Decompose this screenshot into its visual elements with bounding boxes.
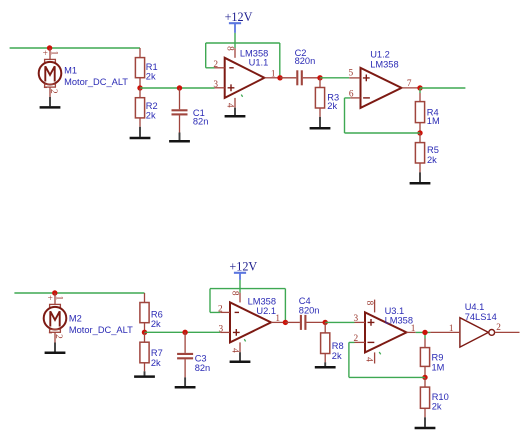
svg-text:R7: R7 (151, 348, 163, 358)
wire +12V drop bottom (239, 280, 241, 293)
svg-text:4: 4 (229, 348, 239, 353)
node M2 tap (52, 290, 57, 295)
svg-text:+12V: +12V (225, 10, 253, 24)
svg-text:4: 4 (363, 357, 373, 362)
op-amp U2.1 LM358 (218, 291, 285, 353)
svg-text:U1.1: U1.1 (249, 57, 269, 67)
svg-text:2k: 2k (432, 401, 442, 411)
svg-text:3: 3 (219, 324, 224, 334)
resistor R10 (420, 377, 448, 417)
node R9/R10 (422, 375, 427, 380)
resistor R4 (415, 93, 439, 133)
wire net IN1 top rail (10, 47, 140, 49)
svg-text:LM358: LM358 (385, 316, 413, 326)
resistor R1 (135, 48, 157, 88)
node R4/R5 (417, 130, 422, 135)
capacitor C2 (280, 48, 320, 85)
svg-text:R9: R9 (432, 353, 444, 363)
ground (45, 343, 66, 353)
svg-text:2k: 2k (327, 101, 337, 111)
svg-text:820n: 820n (295, 56, 316, 66)
wire feedback to pin2 (349, 342, 425, 377)
svg-text:2: 2 (48, 89, 58, 94)
resistor R9 (420, 339, 444, 378)
node divider 1 (137, 85, 142, 90)
ground (415, 417, 436, 428)
svg-text:1: 1 (271, 69, 276, 79)
resistor R7 (140, 332, 163, 371)
node U2.1 output (283, 320, 288, 325)
wire feedback rail U2.1 (210, 289, 285, 323)
ground (130, 127, 151, 138)
resistor R6 (140, 293, 163, 332)
resistor R8 (321, 322, 344, 362)
ground (410, 172, 431, 183)
capacitor C1 (172, 88, 209, 133)
svg-text:+: + (43, 49, 48, 59)
svg-text:7: 7 (407, 79, 412, 89)
node C2/R3 (317, 75, 322, 80)
svg-text:U4.1: U4.1 (465, 302, 485, 312)
node divider 2 (142, 330, 147, 335)
wire net IN2 bottom rail (14, 292, 144, 294)
svg-text:1: 1 (48, 51, 58, 56)
node U1.2 output (417, 85, 422, 90)
svg-text:2k: 2k (427, 155, 437, 165)
svg-text:82n: 82n (195, 363, 211, 373)
svg-text:+12V: +12V (229, 260, 257, 274)
node U3.1 output (422, 330, 427, 335)
motor M2 Motor_DC_ALT (44, 293, 133, 343)
resistor R2 (135, 88, 157, 127)
svg-text:+: + (48, 294, 53, 304)
node C3 tap (182, 330, 187, 335)
capacitor C4 (285, 296, 325, 330)
svg-text:82n: 82n (193, 117, 209, 127)
svg-text:R5: R5 (427, 145, 439, 155)
wire divider node to U2.1 pin3 (145, 331, 221, 333)
svg-text:Motor_DC_ALT: Motor_DC_ALT (64, 77, 128, 87)
wire output stub to R4 (419, 88, 421, 93)
node C4/R8 (323, 320, 328, 325)
svg-text:2: 2 (496, 323, 501, 333)
svg-text:LM358: LM358 (248, 296, 276, 306)
svg-text:8: 8 (229, 291, 239, 296)
wire C4 node to U3.1 pin3 (325, 321, 354, 323)
svg-text:M2: M2 (69, 314, 82, 324)
svg-text:1: 1 (411, 324, 416, 334)
ground (315, 362, 336, 367)
wire C2 node to U1.2 pin5 (320, 77, 349, 79)
svg-text:1M: 1M (427, 116, 440, 126)
wire divider node to U1.1 pin3 (140, 87, 215, 89)
svg-text:1: 1 (53, 296, 63, 301)
svg-text:1: 1 (275, 314, 280, 324)
ground (310, 117, 331, 128)
svg-text:1M: 1M (432, 362, 445, 372)
svg-text:R8: R8 (332, 341, 344, 351)
op-amp U1.1 LM358 (213, 46, 280, 108)
svg-text:2k: 2k (151, 358, 161, 368)
wire feedback rail U1.1 (206, 43, 280, 78)
svg-text:2k: 2k (332, 351, 342, 361)
ground (40, 97, 61, 107)
node U1.1 output (277, 75, 282, 80)
wire feedback to pin6 (345, 98, 421, 133)
wire output OUT1 (420, 87, 465, 89)
svg-text:2: 2 (53, 334, 63, 339)
svg-text:R6: R6 (151, 309, 163, 319)
ground (169, 133, 190, 142)
svg-text:1: 1 (449, 324, 454, 334)
svg-text:74LS14: 74LS14 (465, 312, 497, 322)
svg-text:Motor_DC_ALT: Motor_DC_ALT (69, 325, 133, 335)
svg-text:U2.1: U2.1 (256, 306, 276, 316)
ground (225, 108, 246, 117)
node C1 tap (177, 85, 182, 90)
op-amp U1.2 LM358 (349, 50, 420, 108)
svg-text:3: 3 (354, 314, 359, 324)
svg-text:R2: R2 (146, 101, 158, 111)
svg-text:U3.1: U3.1 (385, 306, 405, 316)
resistor R5 (415, 133, 438, 172)
svg-text:M1: M1 (64, 66, 77, 76)
svg-text:2k: 2k (151, 319, 161, 329)
svg-text:2k: 2k (146, 111, 156, 121)
resistor R3 (315, 78, 339, 117)
svg-text:4: 4 (224, 103, 234, 108)
svg-text:8: 8 (224, 46, 234, 51)
svg-text:820n: 820n (299, 306, 320, 316)
ground (134, 371, 155, 376)
motor M1 Motor_DC_ALT (39, 48, 129, 97)
svg-text:2k: 2k (146, 71, 156, 81)
ground (175, 377, 196, 387)
+12V supply bottom (229, 260, 257, 280)
+12V supply top (225, 10, 253, 33)
wire +12V drop (234, 33, 236, 48)
wire U3.1 output to U4.1 (416, 332, 431, 338)
ground (230, 352, 251, 362)
capacitor C3 (177, 332, 210, 377)
node M1 tap (47, 45, 52, 50)
svg-text:LM358: LM358 (370, 59, 398, 69)
inverter U4.1 74LS14 (430, 302, 519, 347)
svg-text:5: 5 (349, 69, 354, 79)
op-amp U3.1 LM358 (354, 300, 416, 364)
svg-text:8: 8 (364, 301, 374, 306)
svg-text:3: 3 (213, 80, 218, 90)
svg-text:U1.2: U1.2 (370, 50, 390, 60)
